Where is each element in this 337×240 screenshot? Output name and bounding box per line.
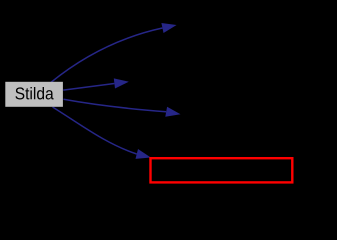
node Stilda (current node, grey filled) <box>5 82 63 107</box>
edge Stilda->node1 (top) <box>51 28 162 82</box>
arrowhead edge2 <box>114 78 129 88</box>
edge Stilda->node3 (lower middle) <box>64 99 167 111</box>
label Stilda <box>15 87 53 99</box>
arrowhead edge4 <box>136 149 151 159</box>
node4 (highlighted, red border) <box>151 158 293 182</box>
arrowhead edge1 <box>161 23 176 33</box>
edge Stilda->node2 (upper middle) <box>63 84 114 91</box>
arrowhead edge3 <box>165 107 180 117</box>
edge Stilda->node4 (bottom, to red node) <box>53 107 137 154</box>
